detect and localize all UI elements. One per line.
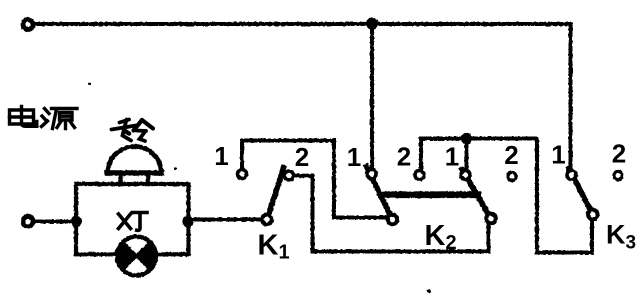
- svg-text:1: 1: [347, 142, 361, 172]
- wire top rail: [35, 22, 571, 26]
- switch K2 contact B1: [461, 171, 470, 180]
- bell base bar: [107, 170, 162, 175]
- parallel branch box (bell + lamp): [76, 184, 189, 254]
- bell legs: [121, 176, 149, 185]
- label 灯 (lamp): [119, 213, 148, 231]
- label 铃 (bell): [112, 120, 154, 142]
- svg-text:2: 2: [504, 140, 518, 170]
- noise dot bottom centre: [427, 289, 431, 293]
- junction dot left side of box: [71, 216, 82, 227]
- switch K1 blade: [267, 168, 284, 220]
- switch K1 contact 2: [285, 171, 294, 180]
- switch K2 contact A1: [367, 170, 376, 179]
- svg-text:K3: K3: [606, 220, 636, 254]
- svg-text:K2: K2: [425, 220, 457, 254]
- switch K2 contact A2: [415, 171, 424, 180]
- wire top-right corner down to K3 contact 1: [569, 24, 573, 169]
- svg-text:K1: K1: [258, 230, 290, 264]
- switch K2 pole A: [388, 215, 398, 225]
- switch K2 blade B: [462, 170, 491, 219]
- label 电源 (power source): [10, 107, 78, 129]
- wire down-right-up to K3 pole: [537, 139, 592, 253]
- switch K3 blade: [569, 169, 593, 215]
- wire T2 to parallel box: [34, 220, 76, 224]
- junction node A on top rail: [366, 18, 378, 30]
- terminal T2 (bottom power terminal): [23, 216, 33, 226]
- svg-text:1: 1: [551, 140, 565, 170]
- switch K3 contact 1: [567, 171, 576, 180]
- wire K2 contact A2 up and right to K3 branch: [421, 139, 537, 171]
- noise dot upper left: [88, 83, 91, 86]
- terminal T1 (top power terminal): [23, 20, 33, 30]
- wire box to K1 pole: [190, 218, 262, 222]
- switch K2 pole B: [486, 214, 496, 224]
- noise dot near bell: [174, 167, 177, 170]
- wire K1 contact 1 up-over-down to K2 pole A: [242, 141, 387, 218]
- wire node B down to K2 contact B1: [465, 140, 469, 170]
- gang bar linking K2 blades: [378, 191, 481, 198]
- wire node A down to K2 contact A1: [370, 24, 374, 168]
- switch K1 pole: [262, 215, 272, 225]
- junction dot right side of box: [182, 216, 193, 227]
- junction node B above K2 contact B1: [461, 133, 472, 144]
- svg-text:1: 1: [214, 141, 228, 171]
- svg-text:1: 1: [445, 142, 459, 172]
- switch K2 contact B2: [508, 172, 516, 180]
- lamp L1 (circle with crossed sectors): [117, 237, 156, 276]
- bell B1 dome: [108, 147, 161, 173]
- switch K1 contact 1: [238, 170, 247, 179]
- svg-text:2: 2: [295, 142, 309, 172]
- svg-text:2: 2: [397, 142, 411, 172]
- wire K1 contact 2 right-down-right-up to K2 pole B: [295, 176, 489, 252]
- switch K2 blade A: [367, 167, 393, 220]
- switch K3 contact 2: [614, 171, 622, 179]
- svg-text:2: 2: [612, 139, 626, 169]
- switch K3 pole: [588, 210, 598, 220]
